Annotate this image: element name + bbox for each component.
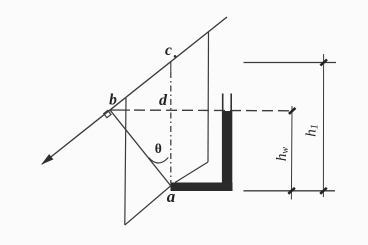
mercury in horizontal tube from a xyxy=(171,183,233,192)
horizontal water-level dashed line from b (solid start) xyxy=(110,109,130,111)
right-angle mark at b xyxy=(104,110,111,117)
top level reference line xyxy=(244,62,337,64)
mercury column in vertical tube xyxy=(222,111,232,183)
svg-text:c: c xyxy=(165,42,172,59)
svg-text:θ: θ xyxy=(155,141,162,156)
point marker at c xyxy=(174,55,177,58)
svg-text:d: d xyxy=(159,92,168,109)
inclined surface line through b and c xyxy=(42,17,227,164)
tube right wall xyxy=(230,94,232,184)
tube left wall xyxy=(222,94,224,184)
dimension line h_1 xyxy=(322,54,324,197)
line b to a (perpendicular to surface) xyxy=(110,110,171,186)
vertical dash-dot centerline c-d-a xyxy=(170,62,172,73)
vertical wall line at right of vessel xyxy=(207,32,210,163)
theta angle arc at a xyxy=(149,158,169,164)
bottom reference line at a level xyxy=(244,190,336,192)
svg-text:a: a xyxy=(167,187,176,206)
svg-text:b: b xyxy=(109,92,117,109)
tick top of h_1 xyxy=(320,60,327,66)
vertical dash-dot centerline continued xyxy=(170,72,172,183)
tick top of h_w xyxy=(289,108,296,114)
sloped funnel line to a xyxy=(175,162,208,183)
tick bottom of h_1 xyxy=(320,188,327,194)
horizontal water-level dashed line continuation to h_w xyxy=(134,109,293,112)
arrowhead at lower end of inclined line xyxy=(42,155,53,164)
vertical wall line below b xyxy=(125,98,126,225)
dimension line h_w xyxy=(290,106,293,200)
lower sloped line to a xyxy=(125,186,171,225)
tick bottom of h_w xyxy=(288,188,295,194)
